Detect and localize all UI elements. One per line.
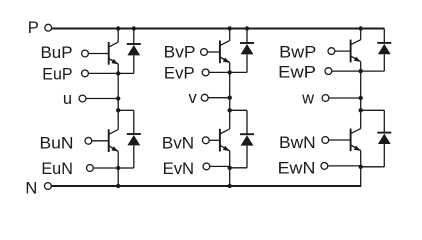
terminal w (phase output)	[301, 90, 329, 108]
wire EuN lead	[93, 167, 118, 169]
wire anode DwP to emitter node	[361, 70, 385, 72]
wire emitter QwN to N rail	[360, 167, 362, 186]
node collector QvP on P rail	[228, 26, 232, 30]
wire BvN lead	[209, 139, 220, 141]
wire emitter QuN to N rail	[117, 168, 119, 186]
terminal EvN (lower emitter sense)	[163, 160, 210, 178]
node collector QwP on P rail	[359, 26, 363, 30]
wire cathode DwP to P rail	[383, 29, 385, 43]
terminal BvP (upper base)	[164, 44, 208, 62]
wire emitter QvN to node	[229, 151, 231, 168]
svg-text:BwP: BwP	[279, 44, 316, 62]
diode DvN (lower freewheel)	[240, 134, 254, 145]
terminal v (phase output)	[188, 89, 208, 107]
node phase v	[228, 96, 232, 100]
terminal BvN (lower base)	[162, 134, 209, 152]
transistor QwN (lower w-phase)	[351, 129, 361, 152]
wire anode DuN down	[133, 145, 135, 168]
wire anode DwN down	[383, 144, 385, 167]
svg-text:BuP: BuP	[41, 44, 73, 62]
terminal P	[28, 19, 52, 37]
terminal EuP (upper emitter sense)	[42, 65, 88, 83]
svg-text:v: v	[188, 89, 197, 107]
node emitter QwP / anode DwP	[359, 69, 363, 73]
terminal BwN (lower base)	[279, 134, 329, 152]
node emitter QwN / anode DwN	[359, 165, 363, 169]
node collector QvN / cathode DvN	[228, 108, 232, 112]
svg-text:BuN: BuN	[40, 135, 74, 153]
wire EuP lead	[88, 72, 118, 74]
wire anode DuP down	[133, 55, 135, 73]
wire cathode DuN down	[133, 110, 135, 134]
svg-text:u: u	[63, 90, 72, 108]
svg-text:EuP: EuP	[42, 65, 72, 83]
terminal EwN (lower emitter sense)	[278, 160, 328, 178]
wire anode DwN to emitter node	[361, 166, 385, 168]
wire anode DuP to emitter node	[118, 72, 134, 74]
svg-text:BwN: BwN	[279, 134, 316, 152]
node collector QuP on P rail	[116, 26, 120, 30]
svg-text:EvP: EvP	[164, 64, 195, 82]
wire v lead	[208, 97, 230, 99]
node phase u	[116, 96, 120, 100]
wire emitter QwP to node	[360, 62, 362, 72]
wire collector QwN	[360, 110, 362, 128]
terminal BuP (upper base)	[41, 44, 89, 62]
diode DuN (lower freewheel)	[127, 134, 141, 145]
wire anode DwP down	[383, 54, 385, 71]
diode DwN (lower freewheel)	[377, 133, 391, 144]
wire cathode branch DvN	[230, 109, 247, 111]
node emitter QuN on N rail	[116, 184, 120, 188]
transistor QwP (upper w-phase)	[351, 40, 361, 63]
wire emitter QvP to node	[229, 63, 231, 73]
wire cathode DvN down	[246, 110, 248, 134]
node phase w	[359, 96, 363, 100]
svg-text:BvP: BvP	[164, 44, 196, 62]
node cathode DuP on P rail	[132, 26, 136, 30]
wire BwN lead	[329, 139, 351, 141]
svg-text:EwN: EwN	[278, 160, 316, 178]
transistor QvP (upper v-phase)	[220, 41, 230, 64]
terminal BuN (lower base)	[40, 135, 92, 153]
wire u lead	[86, 98, 118, 100]
wire anode DvN to emitter node	[230, 167, 247, 169]
wire EwP lead	[332, 70, 361, 72]
svg-text:N: N	[25, 179, 37, 197]
node collector QuN / cathode DuN	[116, 108, 120, 112]
terminal u (phase output)	[63, 90, 86, 108]
svg-text:EwP: EwP	[278, 64, 316, 82]
wire BuP lead	[88, 53, 108, 55]
wire collector QwP to P rail	[360, 29, 362, 40]
terminal N	[25, 179, 51, 197]
node emitter QvN on N rail	[228, 184, 232, 188]
wire cathode branch DuN	[118, 109, 134, 111]
svg-text:EvN: EvN	[163, 160, 195, 178]
svg-text:EuN: EuN	[41, 160, 73, 178]
node collector QwN / cathode DwN	[359, 108, 363, 112]
wire top rail (P bus)	[52, 28, 385, 30]
wire collector QvN	[229, 110, 231, 129]
node emitter QvP / anode DvP	[228, 70, 232, 74]
transistor QuN (lower u-phase)	[109, 129, 119, 152]
wire BuN lead	[92, 140, 109, 142]
wire anode DvP to emitter node	[230, 71, 247, 73]
diode DwP (upper freewheel)	[377, 43, 391, 54]
wire BwP lead	[335, 50, 351, 52]
node emitter QuN / anode DuN	[116, 166, 120, 170]
wire emitter QvN to N rail	[229, 168, 231, 186]
node emitter QvN / anode DvN	[228, 166, 232, 170]
wire bottom rail (N bus)	[51, 185, 361, 187]
node cathode DvP on P rail	[245, 26, 249, 30]
wire EvN lead	[210, 165, 230, 167]
wire collector QvP to P rail	[229, 29, 231, 41]
wire EwN lead	[328, 165, 361, 167]
wire phase column w (upper node to lower)	[360, 71, 362, 110]
wire emitter QuN to node	[117, 151, 119, 168]
wire cathode DvP to P rail	[246, 29, 248, 44]
node emitter QuP / anode DuP	[116, 71, 120, 75]
wire collector QuN	[117, 110, 119, 129]
svg-text:w: w	[301, 90, 314, 108]
transistor QvN (lower v-phase)	[220, 129, 230, 152]
wire collector QuP to P rail	[117, 29, 119, 43]
terminal EwP (upper emitter sense)	[278, 64, 332, 82]
transistor QuP (upper u-phase)	[109, 42, 119, 65]
terminal BwP (upper base)	[279, 44, 335, 62]
diode DuP (upper freewheel)	[127, 44, 141, 55]
diode DvP (upper freewheel)	[240, 43, 254, 54]
terminal EuN (lower emitter sense)	[41, 160, 93, 178]
wire emitter QuP to node	[117, 64, 119, 73]
wire cathode DwN down	[383, 110, 385, 132]
wire phase column v (upper node to lower)	[229, 72, 231, 110]
wire BvP lead	[207, 51, 220, 53]
wire anode DvN down	[246, 146, 248, 168]
wire cathode branch DwN	[361, 109, 385, 111]
svg-text:BvN: BvN	[162, 134, 194, 152]
svg-text:P: P	[28, 19, 39, 37]
terminal EvP (upper emitter sense)	[164, 64, 209, 82]
wire anode DuN to emitter node	[118, 167, 134, 169]
wire phase column u (upper node to lower)	[117, 73, 119, 110]
wire EvP lead	[209, 71, 230, 73]
wire cathode DuP to P rail	[133, 29, 135, 45]
wire w lead	[329, 97, 361, 99]
wire anode DvP down	[246, 54, 248, 72]
wire emitter QwN to node	[360, 151, 362, 167]
